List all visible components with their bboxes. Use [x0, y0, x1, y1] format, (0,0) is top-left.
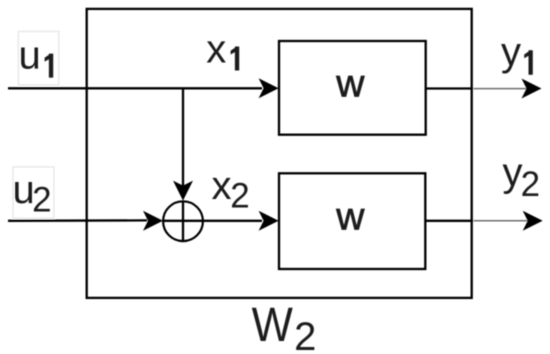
svg-text:y: y — [501, 30, 521, 74]
arrowhead into summer from left — [143, 211, 163, 231]
label x1 — [206, 27, 239, 71]
svg-text:2: 2 — [230, 177, 249, 216]
thin wire outer box edge to y2 arrowhead — [474, 220, 529, 222]
summer cross vertical — [182, 202, 184, 242]
faint box around u2 label — [13, 167, 54, 218]
arrowhead y1 output — [522, 79, 542, 99]
svg-text:x: x — [206, 27, 226, 71]
wire u1 input to top w block — [8, 87, 262, 89]
summing junction circle — [163, 201, 203, 241]
label u2 — [13, 168, 52, 220]
label x2 — [212, 164, 250, 215]
svg-text:w: w — [335, 63, 365, 106]
label W2 under outer box — [252, 297, 317, 354]
block U1: top w box — [279, 41, 426, 135]
svg-text:w: w — [335, 196, 365, 239]
faint box around u1 label — [18, 31, 58, 85]
summer cross horizontal — [163, 220, 203, 222]
thin wire outer box edge to y1 arrowhead — [474, 88, 528, 90]
wire top w block to outer box edge — [426, 87, 473, 89]
svg-text:x: x — [212, 164, 232, 208]
arrowhead into summer from top — [173, 181, 193, 201]
wire u2 input to summer — [8, 219, 147, 222]
arrowhead into bottom w block — [259, 211, 279, 231]
arrowhead into top w block — [259, 78, 279, 98]
block U2: bottom w box — [279, 173, 425, 269]
svg-text:u: u — [19, 34, 41, 78]
label u1 — [19, 34, 54, 78]
svg-text:2: 2 — [32, 181, 51, 220]
wire bottom w block to outer box edge — [425, 220, 473, 222]
label y2 — [503, 150, 541, 204]
svg-text:W: W — [252, 297, 294, 351]
arrowhead y2 output — [523, 211, 543, 231]
svg-text:2: 2 — [294, 315, 316, 354]
wire branch vertical from node to summer — [182, 88, 184, 186]
svg-text:y: y — [503, 150, 523, 194]
wire summer to bottom w block — [203, 220, 262, 222]
outer system box W2 — [87, 9, 472, 298]
svg-text:2: 2 — [521, 165, 540, 204]
label y1 — [501, 30, 533, 75]
